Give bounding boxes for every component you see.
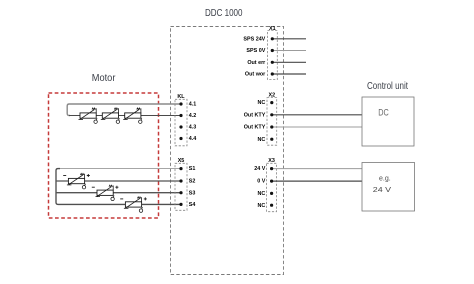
svg-text:DC: DC	[378, 107, 389, 117]
sensor KTY 2	[92, 185, 119, 200]
wire Out KTY plus	[272, 114, 362, 116]
wire to S2	[56, 180, 181, 182]
svg-text:4.2: 4.2	[189, 113, 197, 119]
pin X2.2 Out KTY	[244, 112, 274, 118]
terminal block X3	[267, 158, 277, 212]
pin 4.4	[179, 136, 196, 142]
motor enclosure (red dashed)	[49, 93, 159, 218]
svg-text:Out KTY: Out KTY	[244, 112, 266, 118]
svg-text:NC: NC	[258, 137, 266, 143]
thermistor PTC 2	[101, 108, 120, 123]
svg-text:4.4: 4.4	[189, 136, 197, 142]
svg-text:NC: NC	[258, 191, 266, 197]
wire KTY common bus	[56, 169, 181, 205]
terminal block X5	[175, 158, 187, 210]
sensor KTY 1	[63, 174, 90, 189]
pin X2.3 Out KTY	[244, 125, 274, 131]
thermistor PTC 3	[123, 108, 142, 123]
wire PTC chain to terminal 4.2	[69, 115, 181, 117]
pin 4.3	[179, 125, 196, 131]
pin 4.2	[179, 113, 196, 119]
svg-text:0 V: 0 V	[257, 179, 265, 185]
wire to S1	[58, 168, 181, 170]
wire 24 V supply	[272, 168, 362, 170]
svg-text:4.3: 4.3	[189, 125, 197, 131]
svg-text:SPS 0V: SPS 0V	[246, 48, 265, 54]
svg-text:Out KTY: Out KTY	[244, 125, 266, 131]
svg-text:S1: S1	[189, 166, 196, 172]
DDC 1000 enclosure	[171, 27, 284, 275]
sensor KTY 3	[120, 197, 147, 212]
wire Out err	[272, 61, 306, 63]
svg-text:24 V: 24 V	[373, 185, 392, 194]
pin X1.2 SPS 0V	[246, 48, 273, 54]
svg-text:NC: NC	[258, 100, 266, 106]
pin X3.4 NC	[258, 203, 274, 209]
pin X3.2 0 V	[257, 179, 273, 185]
svg-text:S2: S2	[189, 179, 196, 185]
pin S1	[179, 166, 195, 172]
pin 4.1	[179, 102, 196, 108]
svg-text:S4: S4	[189, 202, 196, 208]
wire to S3	[56, 192, 181, 194]
pin X2.1 NC	[258, 100, 274, 106]
svg-text:DDC 1000: DDC 1000	[205, 8, 243, 19]
pin X1.3 Out err	[247, 60, 274, 66]
pin X3.3 NC	[258, 191, 274, 197]
wire Out KTY minus	[272, 126, 362, 128]
label e.g. 24 V	[373, 176, 392, 195]
svg-text:Out wor: Out wor	[245, 72, 266, 78]
terminal block KL	[175, 94, 187, 146]
pin S4	[179, 202, 195, 208]
power supply box 24V	[362, 163, 415, 212]
control unit box U1	[362, 97, 414, 146]
svg-text:Motor: Motor	[92, 73, 116, 84]
svg-text:Out err: Out err	[247, 60, 266, 66]
pin X1.1 SPS 24V	[243, 36, 273, 42]
pin X3.1 24 V	[254, 166, 273, 172]
thermistor PTC 1	[79, 108, 98, 123]
wire PTC loop to terminal 4.1	[67, 104, 181, 116]
wire Out wor	[272, 73, 306, 75]
pin X1.4 Out wor	[245, 72, 274, 78]
wire SPS 0V	[272, 50, 306, 52]
svg-text:SPS 24V: SPS 24V	[243, 36, 265, 42]
svg-text:Control unit: Control unit	[367, 81, 408, 92]
wire 0 V supply	[272, 180, 362, 182]
svg-text:24 V: 24 V	[254, 166, 265, 172]
svg-text:e.g.: e.g.	[379, 176, 391, 183]
wire SPS 24V	[272, 38, 306, 40]
pin S2	[179, 179, 195, 185]
svg-text:4.1: 4.1	[189, 102, 197, 108]
pin X2.4 NC	[258, 137, 274, 143]
svg-text:S3: S3	[189, 190, 196, 196]
pin S3	[179, 190, 195, 196]
terminal block X2	[267, 93, 277, 146]
svg-text:NC: NC	[258, 203, 266, 209]
terminal block X1	[268, 26, 278, 80]
